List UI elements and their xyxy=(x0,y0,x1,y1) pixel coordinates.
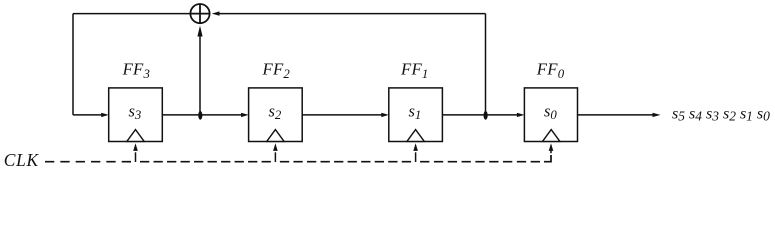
wire clock riser FF0 xyxy=(549,143,554,153)
svg-text:CLK: CLK xyxy=(4,150,40,170)
wire FF3 to FF2 xyxy=(162,113,248,117)
wire clock riser FF1 xyxy=(413,143,418,162)
xor gate xyxy=(190,4,209,23)
wire feedback left vertical xyxy=(72,14,74,115)
wire CLK dashed bus xyxy=(45,161,131,163)
wire feedback top-right segment into XOR xyxy=(212,11,486,15)
node B junction xyxy=(484,111,488,120)
wire input to FF3 xyxy=(73,113,109,117)
flip-flop FF3 xyxy=(109,88,163,142)
svg-text:s5 s4 s3 s2 s1 s0: s5 s4 s3 s2 s1 s0 xyxy=(672,105,770,123)
flip-flop FF0 xyxy=(524,88,577,142)
wire FF1 to FF0 xyxy=(442,113,524,117)
wire clock riser FF3 xyxy=(133,143,138,162)
wire output from FF0 xyxy=(578,113,661,117)
wire feedback top-left segment xyxy=(73,13,190,15)
flip-flop FF2 xyxy=(249,88,303,142)
flip-flop FF1 xyxy=(389,88,443,142)
wire xor input vertical from node A xyxy=(197,26,202,115)
wire feedback right vertical from node B xyxy=(485,14,487,115)
node A junction xyxy=(198,111,202,120)
wire FF2 to FF1 xyxy=(302,113,389,117)
wire clock riser FF2 xyxy=(273,143,278,162)
